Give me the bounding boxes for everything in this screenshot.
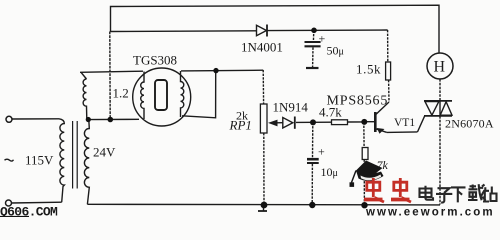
svg-text:1N914: 1N914 <box>273 100 309 115</box>
svg-text:RP1: RP1 <box>229 118 252 133</box>
svg-text:115V: 115V <box>25 153 54 168</box>
svg-text:24V: 24V <box>93 145 116 160</box>
svg-text:Q606.COM: Q606.COM <box>0 204 58 217</box>
svg-text:4.7k: 4.7k <box>319 105 342 120</box>
svg-text:2N6070A: 2N6070A <box>445 117 494 131</box>
svg-text:1.5k: 1.5k <box>356 62 381 77</box>
svg-text:www.eeworm.com: www.eeworm.com <box>365 207 495 218</box>
svg-text:+: + <box>319 32 326 46</box>
svg-text:50μ: 50μ <box>327 44 344 58</box>
svg-text:H: H <box>434 59 446 76</box>
svg-text:1.2: 1.2 <box>113 86 129 101</box>
svg-text:10μ: 10μ <box>321 165 338 179</box>
svg-text:+: + <box>318 145 325 159</box>
svg-text:VT1: VT1 <box>394 117 415 129</box>
svg-text:TGS308: TGS308 <box>133 53 177 68</box>
svg-text:1N4001: 1N4001 <box>241 40 283 55</box>
